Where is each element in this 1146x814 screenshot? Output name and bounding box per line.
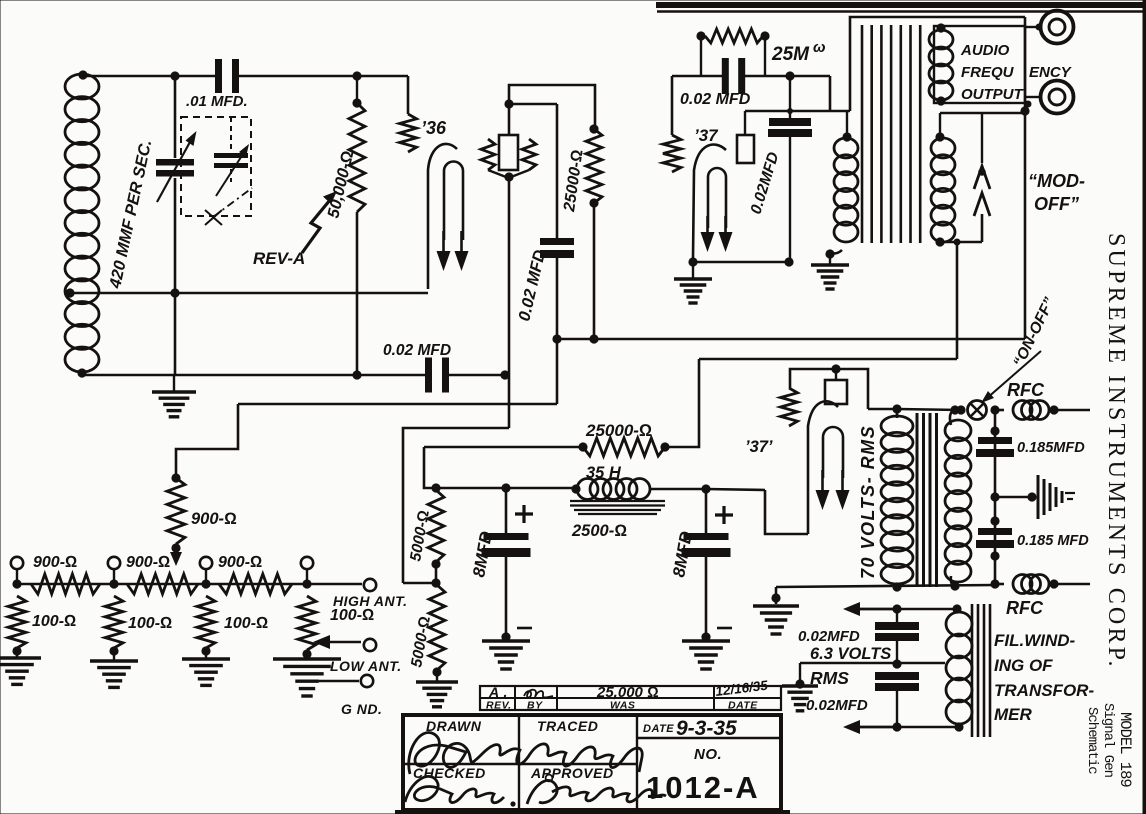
wire B+ step <box>765 490 808 534</box>
wire 420MMF branch <box>174 76 177 158</box>
svg-text:2500-Ω: 2500-Ω <box>571 522 627 540</box>
resistor R8 900 ohm <box>219 574 292 594</box>
wire grid rail <box>745 110 850 113</box>
svg-text:0.185MFD: 0.185MFD <box>1017 440 1085 456</box>
ground GND11 <box>692 262 694 278</box>
terminal GND <box>361 675 373 687</box>
ground GND4 <box>182 657 230 660</box>
title block box <box>403 715 781 810</box>
sig approved <box>527 780 666 804</box>
node bus tap <box>990 492 999 501</box>
svg-text:TRANSFOR-: TRANSFOR- <box>994 681 1094 700</box>
wire choke to C6 <box>650 488 706 491</box>
x adjust mark <box>205 210 222 225</box>
ground GND8 <box>682 639 730 642</box>
wire rect top rail <box>699 358 957 361</box>
resistor R17 25 megohm <box>696 31 705 40</box>
svg-text:DATE: DATE <box>728 700 758 712</box>
svg-text:900-Ω: 900-Ω <box>218 554 262 571</box>
resistor R15 25000 ohm <box>578 442 587 451</box>
svg-text:25,000 Ω: 25,000 Ω <box>596 684 659 701</box>
capacitor C11 0.02MFD grid <box>722 58 729 94</box>
svg-text:REV-A: REV-A <box>253 249 305 268</box>
arrow ON-OFF pointer <box>986 351 1041 399</box>
svg-text:ω: ω <box>813 39 826 56</box>
choke RFC2 <box>995 583 1004 586</box>
triode V2 37 osc hook <box>693 145 726 258</box>
arrow V3 filament left <box>821 470 824 496</box>
svg-text:Signal Gen: Signal Gen <box>1100 703 1116 778</box>
svg-text:25000-Ω: 25000-Ω <box>585 421 652 440</box>
capacitor C8 0.185MFD <box>990 516 999 525</box>
wire cathode return <box>70 292 428 295</box>
resistor R9 100 ohm <box>8 596 26 648</box>
triode V1 36 filament hairpin <box>444 162 463 241</box>
triode V2 filament hairpin <box>708 168 726 228</box>
node plate box bottom <box>504 172 513 181</box>
svg-text:DRAWN: DRAWN <box>426 718 482 734</box>
svg-text:BY: BY <box>527 700 543 712</box>
resistor R4 25000 ohm <box>589 124 598 133</box>
wire osc cathode <box>688 257 697 266</box>
svg-text:RFC: RFC <box>1007 380 1045 400</box>
node 5000 junction <box>431 578 440 587</box>
svg-text:DATE: DATE <box>643 723 674 735</box>
svg-text:ING OF: ING OF <box>994 656 1053 675</box>
resistor R7 900 ohm <box>127 574 198 594</box>
svg-text:RMS: RMS <box>810 668 849 688</box>
ground GND7 <box>482 639 530 642</box>
wire HV bottom <box>892 582 901 591</box>
capacitor C6 8MFD + <box>701 484 710 493</box>
wire det plate drop <box>508 177 511 428</box>
arrow REV-A bolt <box>302 200 330 253</box>
svg-text:100-Ω: 100-Ω <box>128 615 172 632</box>
terminal T4 <box>301 557 313 569</box>
node 50000 top <box>352 71 361 80</box>
resistor R5 900 ohm vertical <box>167 478 185 544</box>
ground GND6 <box>416 680 458 683</box>
winding AF output <box>936 23 945 32</box>
svg-text:HIGH ANT.: HIGH ANT. <box>333 593 408 609</box>
arrow V2 filament right <box>724 216 727 238</box>
svg-text:SUPREME INSTRUMENTS CORP.: SUPREME INSTRUMENTS CORP. <box>1103 233 1129 670</box>
choke L2 35H <box>577 479 598 500</box>
svg-text:LOW ANT.: LOW ANT. <box>330 658 402 674</box>
resistor R2 grid 36 <box>400 114 417 152</box>
arrow variable cap C2 <box>157 142 190 202</box>
wire plate box top <box>508 104 511 136</box>
pilot lamp ON-OFF <box>956 405 965 414</box>
svg-text:9-3-35: 9-3-35 <box>676 717 737 740</box>
capacitor C1 .01 MFD series <box>215 59 222 93</box>
wire comb tap <box>995 496 1032 499</box>
wire filter top <box>424 447 576 488</box>
svg-text:WAS: WAS <box>610 700 635 712</box>
node bottom rail <box>352 370 361 379</box>
node 900V bottom <box>171 543 180 552</box>
svg-text:25M: 25M <box>771 44 810 65</box>
svg-text:70 VOLTS- RMS: 70 VOLTS- RMS <box>858 425 878 579</box>
svg-text:0.02MFD: 0.02MFD <box>798 628 860 645</box>
wire fil mid <box>800 662 945 665</box>
resistor R14 5000 ohm <box>429 585 445 670</box>
capacitor C7 0.185MFD <box>990 426 999 435</box>
resistor R6 900 ohm <box>31 574 100 594</box>
arrow V2 filament left <box>706 216 709 238</box>
svg-text:Schematic: Schematic <box>1084 707 1100 774</box>
triode V1 36 grid hook <box>428 144 457 289</box>
wire fil bottom <box>856 726 959 729</box>
wire top rail right <box>850 17 1025 111</box>
page border right <box>1143 0 1146 814</box>
svg-text:OUTPUT: OUTPUT <box>961 86 1025 103</box>
svg-text:ʼ36: ʼ36 <box>421 118 447 138</box>
arrow V1 filament right <box>460 231 463 257</box>
arrow V1 filament left <box>442 231 445 257</box>
resistor R12 100 ohm <box>298 596 316 650</box>
wire grid cap rail <box>672 75 728 78</box>
svg-text:1012-A: 1012-A <box>646 770 760 805</box>
resistor R10 100 ohm <box>105 596 123 648</box>
ground GND1 <box>173 375 175 392</box>
triode V3 filament hairpin <box>823 427 843 478</box>
svg-text:35 H: 35 H <box>586 464 622 482</box>
switch MOD-OFF <box>981 113 983 163</box>
svg-text:ʼ37: ʼ37 <box>694 126 719 145</box>
svg-text:900-Ω: 900-Ω <box>191 510 237 528</box>
svg-text:RFC: RFC <box>1006 598 1044 618</box>
wire rect plate loop <box>790 369 868 409</box>
node bus bottom <box>990 579 999 588</box>
node fuse stem <box>831 364 840 373</box>
svg-text:900-Ω: 900-Ω <box>33 554 77 571</box>
wire HV top <box>868 408 897 411</box>
revision strip <box>480 686 781 710</box>
wire lamp feed <box>897 409 961 410</box>
winding 6.3V fil <box>946 612 972 636</box>
ground GND12 <box>829 254 831 264</box>
sig drawn traced <box>409 733 643 774</box>
wire mod bottom <box>940 241 982 244</box>
resistor R11 100 ohm <box>197 596 215 648</box>
wire B mod line <box>552 334 561 343</box>
node filter nodes <box>431 483 440 492</box>
jack J1 <box>1025 26 1041 28</box>
capacitor C9 0.02MFD <box>896 609 898 622</box>
node grid cap right <box>785 71 794 80</box>
winding mod secondary <box>935 132 944 141</box>
resistor R18 osc grid <box>663 135 681 172</box>
dashed box trimmer section <box>181 117 251 216</box>
svg-text:MER: MER <box>994 705 1033 724</box>
wire ladder bus <box>17 583 362 586</box>
trimmer capacitor dashed <box>214 117 248 182</box>
arrow trimmer <box>216 154 243 196</box>
winding osc tank <box>842 132 851 141</box>
svg-text:100-Ω: 100-Ω <box>330 607 374 624</box>
transformer T1 core <box>916 413 919 587</box>
capacitor C2 420 MMF variable <box>156 159 194 166</box>
svg-text:REV.: REV. <box>486 700 512 712</box>
winding 70V RMS primary <box>881 416 913 436</box>
wire plate to 25000V <box>509 85 595 129</box>
svg-text:A .: A . <box>488 684 508 700</box>
page border top <box>656 2 1146 8</box>
node 900V top <box>171 473 180 482</box>
svg-text:6.3 VOLTS: 6.3 VOLTS <box>810 645 891 663</box>
svg-text:ʼ37ʼ: ʼ37ʼ <box>745 438 773 456</box>
svg-text:0.02MFD: 0.02MFD <box>806 697 868 714</box>
terminal LOW ANT <box>364 639 376 651</box>
svg-text:ENCY: ENCY <box>1029 64 1073 81</box>
capacitor C5 8MFD + <box>505 488 508 533</box>
svg-text:0.185 MFD: 0.185 MFD <box>1017 533 1089 549</box>
arrow fil top <box>856 608 898 610</box>
terminal T2 <box>108 557 120 569</box>
wire osc grid drop <box>671 76 674 135</box>
svg-text:900-Ω: 900-Ω <box>126 554 170 571</box>
ground GND10 <box>782 684 818 687</box>
resistor R1 50000 ohm <box>356 76 358 103</box>
capacitor C12 0.02MFD plate <box>789 76 791 118</box>
arrow fil bottom <box>856 726 898 728</box>
ground GND3 <box>90 659 138 662</box>
grid box R19 <box>737 135 754 163</box>
svg-text:FIL.WIND-: FIL.WIND- <box>994 631 1076 650</box>
winding secondary HT <box>945 420 971 441</box>
svg-text:FREQU: FREQU <box>961 64 1015 81</box>
resistor R13 5000 ohm <box>428 490 444 562</box>
audio output box <box>934 26 1025 103</box>
title block bottom edge <box>395 810 790 814</box>
svg-text:MODEL 189: MODEL 189 <box>1116 712 1134 787</box>
comb symbol chassis <box>1037 475 1040 519</box>
wire HT bus <box>994 410 997 584</box>
node 420MMF top <box>170 71 179 80</box>
wire gnd terminal <box>318 680 359 683</box>
svg-text:“MOD-: “MOD- <box>1028 171 1085 191</box>
sig checked <box>405 776 504 802</box>
wire mod switch rail <box>940 112 1025 115</box>
ground GND2 <box>0 656 41 659</box>
inductor L1 tank coil <box>65 74 99 99</box>
resistor R3 plate box <box>499 135 518 170</box>
capacitor C4 0.02 MFD mid <box>556 104 559 238</box>
arrow 900V wiper <box>170 552 182 566</box>
svg-text:NO.: NO. <box>694 746 722 763</box>
node plate box top <box>504 99 513 108</box>
transformer T1 fil core <box>971 604 974 737</box>
svg-text:0.02 MFD: 0.02 MFD <box>680 91 751 108</box>
svg-text:.01 MFD.: .01 MFD. <box>186 93 248 110</box>
wire bottom rail <box>82 374 428 377</box>
terminal HIGH ANT <box>364 579 376 591</box>
wire divider jog <box>176 404 238 478</box>
title block dividers <box>518 715 520 810</box>
svg-text:OFF”: OFF” <box>1034 194 1079 214</box>
capacitor C10 0.02MFD <box>875 672 919 680</box>
arrow V3 filament right <box>841 470 844 496</box>
svg-text:APPROVED: APPROVED <box>530 765 614 781</box>
svg-text:AUDIO: AUDIO <box>960 42 1010 59</box>
wire grid drop 36 <box>407 76 410 114</box>
resistor R16 37 plate <box>781 388 798 426</box>
terminal T3 <box>200 557 212 569</box>
ground GND9 <box>753 604 799 607</box>
svg-text:G ND.: G ND. <box>341 701 382 717</box>
jack J2 <box>1025 96 1041 98</box>
choke RFC1 <box>995 409 1004 412</box>
sig EhP <box>524 690 553 698</box>
ground GND5 big <box>273 657 341 660</box>
svg-text:0.02 MFD: 0.02 MFD <box>383 342 451 359</box>
arrow LOW ANT tap <box>326 641 361 643</box>
wire top rail left section <box>82 75 218 78</box>
capacitor C3 0.02 MFD <box>425 358 432 393</box>
svg-text:100-Ω: 100-Ω <box>32 613 76 630</box>
node coil top <box>78 70 87 79</box>
svg-text:TRACED: TRACED <box>537 718 598 734</box>
transformer T2 core <box>861 25 864 243</box>
terminal T1 <box>11 557 23 569</box>
fuse box F1 <box>825 380 847 404</box>
wire fil top <box>856 608 957 611</box>
triode V3 37 rect hook <box>808 401 838 534</box>
svg-text:100-Ω: 100-Ω <box>224 615 268 632</box>
